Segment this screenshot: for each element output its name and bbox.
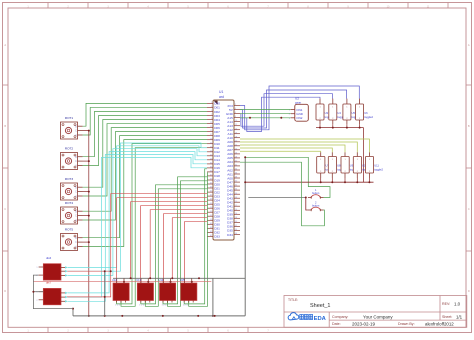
- wire matrix2 left branch: [33, 291, 43, 293]
- wire GND drop mid: [212, 278, 214, 316]
- wire encoder C branch: [83, 241, 89, 243]
- U1 pin1 corner mark: [214, 101, 218, 105]
- wire green net display 3 loop 1: [163, 177, 207, 304]
- toggle switch U3: [316, 99, 332, 125]
- op IC U1 ard mega header: [213, 100, 234, 240]
- wire yellow-green net row2 toggle 4: [240, 148, 332, 152]
- title block: [284, 296, 467, 328]
- wire green net display 2 loop 2: [145, 189, 207, 306]
- svg-text:Your Company: Your Company: [363, 314, 393, 319]
- svg-text:Date:: Date:: [332, 322, 341, 326]
- U1 left pins D00-D33: [207, 103, 213, 236]
- wire net D10 to disp1: [117, 144, 208, 304]
- svg-text:toggle2: toggle2: [374, 167, 383, 171]
- junction common at bottom rail: [88, 315, 90, 317]
- wire display 4 bottom stub: [188, 301, 190, 304]
- svg-text:ROT2: ROT2: [65, 147, 74, 151]
- wire net D03 to ROT2: [83, 115, 208, 165]
- svg-text:U4: U4: [337, 111, 341, 115]
- wire display 3 bottom stub: [167, 301, 169, 304]
- wire yellow-green net row2 toggle 3: [240, 145, 345, 152]
- wire net D00 to ROT1: [83, 103, 208, 126]
- svg-text:1/1: 1/1: [456, 314, 463, 319]
- svg-text:U6: U6: [364, 111, 368, 115]
- junction bottom rail dots: [104, 315, 106, 317]
- wire cyan net matrix 4: [68, 152, 208, 293]
- svg-text:ROT1: ROT1: [65, 116, 74, 120]
- wire button common horizontal: [248, 197, 305, 199]
- svg-text:1.0: 1.0: [454, 301, 461, 306]
- toggle switch U6: [356, 99, 374, 125]
- svg-text:Drawn By:: Drawn By:: [398, 322, 415, 326]
- wire yellow-green net row2 toggle 5: [240, 150, 321, 153]
- display module U15: [180, 278, 197, 306]
- wire blue power net 1: [240, 86, 359, 130]
- wire cyan net matrix 3: [68, 149, 208, 276]
- wire cyan net matrix 6: [68, 157, 208, 297]
- svg-text:button: button: [312, 204, 320, 208]
- wire toggle bottom stub: [359, 124, 361, 127]
- svg-text:1 2 3: 1 2 3: [115, 305, 121, 307]
- svg-text:Sheet:: Sheet:: [442, 315, 452, 319]
- junction matrix common grey: [104, 270, 106, 272]
- junction row1 rail: [319, 127, 321, 129]
- toggle switch U4: [329, 99, 345, 125]
- svg-text:REV:: REV:: [442, 302, 450, 306]
- matrix module dis1: [36, 264, 67, 280]
- toggle switch U10: [353, 152, 370, 178]
- junction encoder C: [88, 160, 90, 162]
- wire net D08 to ROT5: [83, 136, 208, 238]
- display module U14: [159, 278, 176, 306]
- junction encoder C: [88, 241, 90, 243]
- svg-text:C: C: [468, 207, 470, 211]
- toggle switch U8: [328, 152, 345, 178]
- junction display rail dots: [130, 277, 132, 279]
- svg-text:U14: U14: [159, 278, 164, 282]
- wire toggle bottom stub: [332, 124, 334, 127]
- toggle switch U5: [343, 99, 359, 125]
- connector U2 gear: [289, 97, 309, 122]
- wire toggle bottom stub: [346, 124, 348, 127]
- wire net D02 to ROT2: [83, 111, 208, 156]
- push button 1: [308, 188, 324, 199]
- wire red horizontal long net: [33, 281, 211, 283]
- wire blue power net 2: [240, 90, 347, 128]
- svg-text:C: C: [4, 207, 6, 211]
- wire display 1 bottom stub: [120, 301, 122, 304]
- logo CJK glyph blocks: [300, 315, 304, 320]
- svg-text:Company:: Company:: [332, 315, 348, 319]
- wire green U2 net 2: [240, 113, 291, 115]
- wire cyan net matrix 1: [68, 143, 208, 271]
- svg-text:D33: D33: [214, 235, 220, 239]
- junction button common: [305, 197, 307, 199]
- svg-text:ON2: ON2: [296, 116, 303, 120]
- wire net D01 to ROT1: [83, 107, 208, 135]
- svg-text:dis7: dis7: [46, 281, 52, 285]
- wire red net D23: [117, 198, 207, 283]
- wire toggle row1 bottom rail: [319, 124, 321, 127]
- svg-text:EDA: EDA: [314, 316, 327, 322]
- svg-text:D: D: [4, 289, 6, 293]
- junction red line taps: [123, 281, 125, 283]
- svg-text:U8: U8: [337, 164, 341, 168]
- rotary encoder ROT4: [61, 201, 83, 224]
- toggle switch U11: [365, 152, 383, 178]
- wire button common drop: [306, 198, 308, 211]
- junction encoder C: [88, 130, 90, 132]
- matrix module dis2: [36, 288, 67, 304]
- svg-text:ROT5: ROT5: [65, 228, 74, 232]
- wire blue power net 3: [240, 94, 333, 127]
- wire green net display 4 loop 2: [189, 173, 208, 306]
- svg-text:B: B: [4, 124, 6, 128]
- wire encoder C branch: [83, 191, 89, 193]
- svg-text:2023-02-19: 2023-02-19: [352, 321, 376, 326]
- wire GND left link from matrix: [72, 309, 74, 316]
- display module U12: [112, 278, 129, 306]
- wire row2 bottom stubs: [321, 178, 370, 182]
- svg-text:ROT4: ROT4: [65, 201, 74, 205]
- wire net D07 to ROT4: [83, 132, 208, 220]
- wire row1 rail to row2 rail: [363, 128, 365, 183]
- logo JLC EDA cloud: [288, 313, 299, 320]
- junction GND 157: [244, 156, 246, 158]
- svg-text:D: D: [468, 289, 470, 293]
- wire grey matrix common vertical: [104, 271, 106, 316]
- svg-text:ard: ard: [219, 95, 224, 99]
- wire net D05 to ROT3: [83, 124, 208, 196]
- rotary encoder ROT3: [61, 177, 83, 200]
- wire blue power net 4: [240, 97, 320, 131]
- junction red matrix common: [110, 270, 112, 272]
- wire green button2 net from IC: [240, 162, 324, 226]
- wire net D11 to disp1: [121, 148, 207, 307]
- wire display 2 bottom stub: [144, 301, 146, 304]
- junction U2 nets: [249, 117, 251, 119]
- svg-text:ROT3: ROT3: [65, 177, 74, 181]
- wire green net display 3 loop 2: [168, 181, 208, 306]
- wire green net display 2 loop 1: [141, 185, 207, 304]
- wire encoder C branch: [83, 160, 89, 162]
- wire matrix left chain: [33, 275, 73, 309]
- svg-text:A: A: [468, 43, 470, 47]
- wire red net D24: [131, 202, 207, 279]
- wire red net D22: [65, 194, 207, 297]
- wire net D09 to ROT5: [83, 140, 208, 247]
- wire encoder C branch: [83, 215, 89, 217]
- wire GND row2 rail: [245, 181, 373, 183]
- wire red net D29: [184, 222, 207, 283]
- U1 right pins power analog digital: [234, 106, 240, 235]
- toggle switch U7: [317, 152, 334, 178]
- push button 2: [308, 201, 324, 212]
- svg-text:D34: D34: [227, 233, 233, 237]
- wire green button1 net from GND vertical: [245, 157, 330, 197]
- svg-text:U13: U13: [136, 278, 141, 282]
- junction matrix left chain: [32, 291, 34, 293]
- wire green U2 net 3: [240, 117, 291, 119]
- wire encoder common net vertical: [83, 131, 89, 316]
- wire cyan net matrix 2: [68, 146, 208, 268]
- junction encoder C: [88, 191, 90, 193]
- junction row2 rail: [320, 181, 322, 183]
- svg-text:B: B: [468, 124, 470, 128]
- wire GND vertical right: [244, 157, 246, 316]
- wire red branch matrix1 pin2: [65, 270, 111, 272]
- wire red net D26: [150, 210, 207, 279]
- wire yellow-green net row2 toggle 2: [240, 142, 357, 152]
- svg-text:1 2 3: 1 2 3: [183, 305, 189, 307]
- rotary encoder ROT5: [61, 228, 83, 251]
- svg-text:A: A: [4, 43, 6, 47]
- display module U13: [136, 278, 153, 306]
- svg-text:dis6: dis6: [46, 256, 52, 260]
- svg-text:alexfroloff2012: alexfroloff2012: [425, 321, 454, 326]
- wire net D04 to ROT3: [83, 120, 208, 188]
- svg-text:U3: U3: [325, 111, 329, 115]
- wire red net D25: [141, 206, 207, 283]
- svg-text:button: button: [312, 191, 320, 195]
- junction GND drop bottom: [212, 315, 214, 317]
- wire red net D27: [164, 214, 208, 283]
- wire GND bottom rail: [73, 315, 245, 317]
- wire row1 rail horizontal: [316, 127, 364, 129]
- svg-text:toggle2: toggle2: [364, 115, 373, 119]
- svg-text:U15: U15: [180, 278, 185, 282]
- wire net D06 to ROT4: [83, 128, 208, 212]
- wire green U2 net 1: [240, 109, 291, 111]
- wire red net D28: [172, 218, 207, 279]
- toggle switch U9: [341, 152, 358, 178]
- wire display top rail: [113, 277, 245, 279]
- svg-text:U5: U5: [352, 111, 356, 115]
- svg-text:U1: U1: [219, 90, 223, 94]
- rotary encoder ROT2: [61, 147, 83, 170]
- svg-text:TITLE:: TITLE:: [288, 298, 298, 302]
- svg-text:gear: gear: [295, 100, 301, 104]
- wire green net display 4 loop 1: [184, 169, 207, 304]
- wire yellow-green net row2 toggle 1: [240, 139, 369, 152]
- svg-text:1 2 3: 1 2 3: [139, 305, 145, 307]
- svg-text:1 2 3: 1 2 3: [162, 305, 168, 307]
- svg-text:U11: U11: [374, 164, 379, 168]
- junction encoder C: [88, 215, 90, 217]
- svg-text:Sheet_1: Sheet_1: [310, 303, 331, 309]
- wire cyan net matrix 5: [68, 155, 208, 302]
- svg-text:U12: U12: [112, 278, 117, 282]
- rotary encoder ROT1: [61, 116, 83, 139]
- junction GND 182: [244, 181, 246, 183]
